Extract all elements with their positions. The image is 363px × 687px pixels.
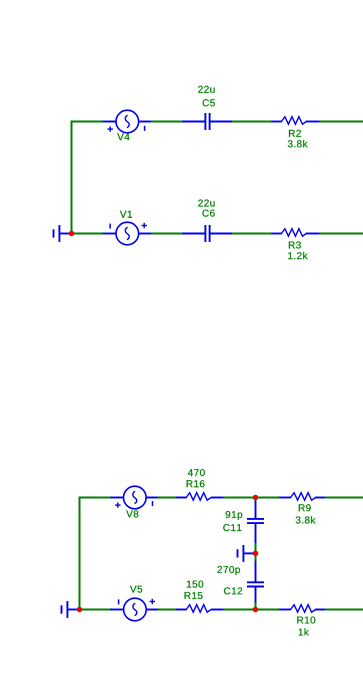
wire C11 to node C [255,543,257,554]
capacitor C5 22u [182,86,233,130]
wire node C to C12 [255,553,257,561]
resistor R3 1.2k [271,229,319,259]
wire R10 to right edge [325,609,363,611]
wire node A: V4+ to left rail [72,121,104,123]
wire left rail vertical (top section) [71,121,73,234]
wire node B to C11 [255,498,257,502]
wire V4- to C5 [151,121,183,123]
wire C5 to R2 [232,121,272,123]
junction node 0 / left rail [69,231,75,237]
wire V1+ to C6 [151,233,183,235]
resistor R10 1k [279,605,326,636]
wire R3 to right edge [319,233,363,235]
wire R15 to node D [223,609,256,611]
wire V8+ to left rail [80,497,113,499]
junction node B [253,495,259,501]
wire V5+ to R15 [158,609,177,611]
wire node B to R9 [256,497,281,499]
ground GND1 (0) [54,225,72,242]
ground GND3 (0) [62,601,80,618]
resistor R15 150 [176,581,225,613]
resistor R2 3.8k [271,117,319,148]
wire C6 to R3 [232,233,272,235]
resistor R9 3.8k [279,493,326,524]
wire node 0 to V1- [72,233,104,235]
voltage source V8 [110,486,159,517]
wire R16 to node B [223,497,256,499]
voltage source V4 [103,110,152,140]
capacitor C11 91p [223,501,264,544]
voltage source V1 [103,211,152,245]
capacitor C12 270p [218,561,265,604]
wire V8- to R16 [158,497,177,499]
wire left rail vertical (bottom section) [79,497,81,610]
junction node D [253,607,259,613]
junction node 0 / left rail bottom [77,607,83,613]
voltage source V5 [110,586,159,621]
wire R9 to right edge [325,497,363,499]
wire R2 to right edge [319,121,363,123]
junction node C [253,551,259,557]
wire C12 to node D [255,603,257,610]
wire node 0 to V5- [80,609,113,611]
ground GND2 (0) [238,545,256,562]
wire node D to R10 [256,609,281,611]
capacitor C6 22u [182,200,233,243]
resistor R16 470 [176,469,225,500]
